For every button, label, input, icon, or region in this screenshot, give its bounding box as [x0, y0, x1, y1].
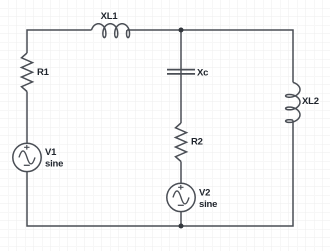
- wire: R1 top to top-left corner to XL1 left: [27, 30, 92, 53]
- wire: V1 bottom to bottom-left corner to node B: [27, 172, 181, 226]
- wire: XL1 right to node A: [127, 29, 181, 31]
- svg-text:XL1: XL1: [101, 11, 119, 22]
- svg-text:Xc: Xc: [197, 68, 208, 79]
- voltage source V1 (sine): [13, 143, 41, 171]
- wire: node A down to capacitor and R2 top: [180, 30, 182, 123]
- inductor XL1: [92, 24, 130, 38]
- wire: R2 bottom to V2 top: [180, 162, 182, 184]
- inductor XL2: [286, 82, 300, 122]
- svg-text:R1: R1: [37, 67, 50, 78]
- voltage source V2 (sine): [167, 183, 195, 211]
- resistor R2: [176, 123, 187, 162]
- junction node A (top): [179, 28, 184, 33]
- svg-text:XL2: XL2: [302, 96, 319, 107]
- svg-text:sine: sine: [199, 199, 217, 210]
- svg-text:V2: V2: [199, 187, 210, 198]
- capacitor Xc plates: [167, 70, 195, 74]
- svg-text:V1: V1: [45, 147, 57, 158]
- svg-text:sine: sine: [45, 159, 63, 170]
- junction node B (bottom): [179, 224, 184, 229]
- wire: R1 bottom to V1 top: [26, 92, 28, 144]
- wire: V2 bottom to node B: [180, 211, 182, 226]
- svg-text:R2: R2: [191, 137, 203, 148]
- resistor R1: [22, 53, 33, 92]
- wire: node B to bottom-right corner to XL2 bottom: [181, 120, 293, 226]
- wire: node A to top-right corner to XL2 top: [181, 30, 293, 82]
